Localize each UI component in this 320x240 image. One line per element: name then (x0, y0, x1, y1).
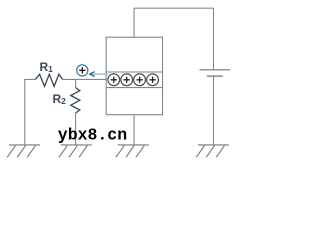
battery B1 short plate (207, 75, 223, 77)
positive charge 4 (147, 74, 159, 86)
svg-text:R1: R1 (40, 60, 54, 74)
wire left branch (25, 79, 36, 144)
wire top rail (134, 7, 214, 9)
wire R2 bottom (75, 113, 77, 145)
wire battery bottom (213, 76, 215, 145)
battery B1 long plate (200, 69, 231, 71)
positive charge 1 (108, 74, 120, 86)
svg-text:ybx8.cn: ybx8.cn (58, 125, 127, 144)
wire battery top (213, 8, 215, 70)
svg-text:R2: R2 (53, 92, 67, 106)
ground left (7, 145, 40, 157)
band line upper (106, 71, 162, 73)
positive charge 2 (121, 74, 133, 86)
resistor R2 (71, 88, 80, 114)
device box (106, 37, 162, 115)
ground box (116, 145, 149, 157)
wire box top (133, 8, 135, 37)
band line lower (106, 87, 162, 89)
resistor R1 (35, 74, 62, 86)
wire R1 to box (63, 78, 107, 80)
ground battery (196, 145, 229, 157)
ground R2 (59, 145, 92, 157)
wire box bottom (133, 115, 135, 145)
wire R2 top (75, 79, 77, 87)
arrow charge motion (90, 72, 106, 76)
positive charge 3 (134, 74, 146, 86)
moving positive charge (blue) (77, 65, 88, 76)
